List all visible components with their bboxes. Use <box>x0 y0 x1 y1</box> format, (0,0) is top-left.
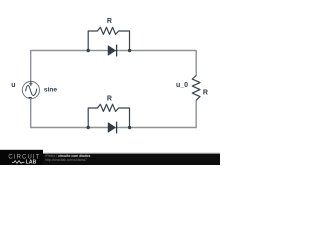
svg-text:R: R <box>107 18 112 25</box>
voltage source minus sign <box>28 97 31 99</box>
node dot bottom-left <box>87 126 90 129</box>
voltage source plus sign <box>29 81 32 86</box>
resistor R2 loop (bottom branch) <box>88 104 129 127</box>
watermark bar <box>0 154 220 165</box>
logo resistor zigzag <box>12 161 25 164</box>
svg-text:sine: sine <box>44 86 58 93</box>
resistor R3 (right, vertical) <box>192 76 200 101</box>
wire right lower <box>195 100 197 128</box>
watermark logo box <box>0 150 43 165</box>
svg-text:http://circuitlab.com/c2dkma7: http://circuitlab.com/c2dkma7 <box>46 158 88 162</box>
node dot top-left <box>87 49 90 52</box>
svg-text:u_0: u_0 <box>176 82 188 89</box>
wire left upper <box>30 50 32 82</box>
wire bottom horizontal <box>31 127 197 129</box>
voltage source sine wave <box>26 85 37 95</box>
diode D1 (top branch) <box>108 45 116 57</box>
node dot bottom-right <box>128 126 131 129</box>
voltage source U1 circle <box>22 81 39 98</box>
svg-text:u: u <box>11 82 15 89</box>
diode D2 (bottom branch) <box>108 122 116 134</box>
wire top horizontal <box>31 50 197 52</box>
watermark bar soft top edge <box>42 153 220 154</box>
resistor R1 loop (top branch) <box>88 27 129 50</box>
wire left lower <box>30 98 32 128</box>
svg-text:R: R <box>107 95 112 102</box>
node dot top-right <box>128 49 131 52</box>
svg-text:LAB: LAB <box>26 160 37 166</box>
wire right upper <box>195 50 197 76</box>
svg-text:R: R <box>203 89 208 96</box>
